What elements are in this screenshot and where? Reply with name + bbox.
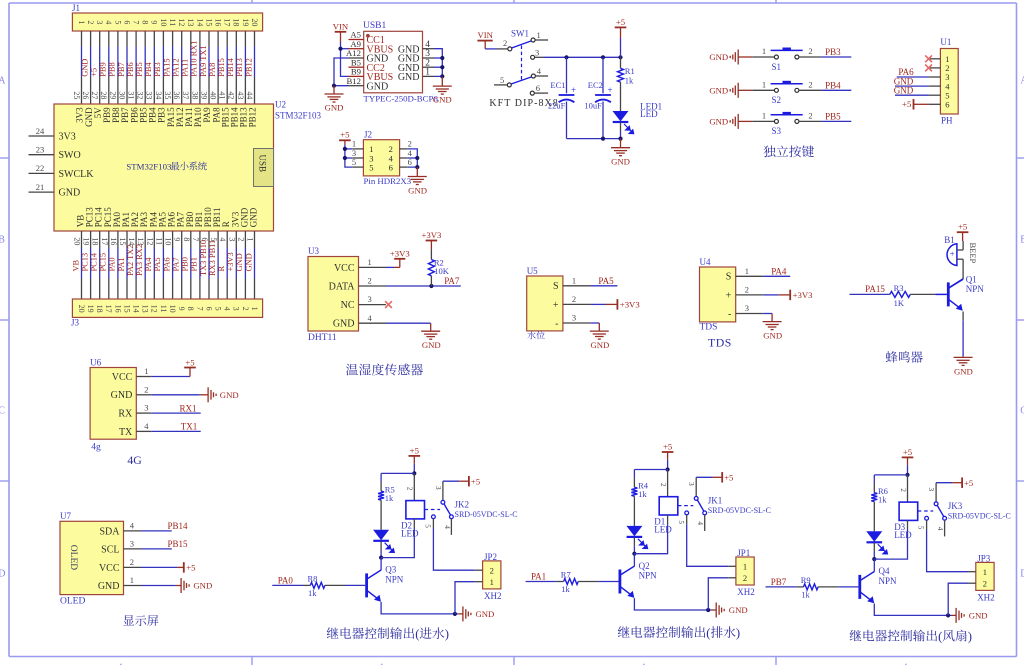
- svg-text:PB14: PB14: [168, 521, 189, 531]
- svg-text:PB12: PB12: [248, 107, 258, 127]
- capacitor EC1 22uF: [566, 57, 568, 93]
- svg-text:PB0: PB0: [181, 257, 190, 271]
- transistor Q3 NPN: [367, 570, 382, 602]
- svg-text:PA2 TX2: PA2 TX2: [126, 245, 135, 276]
- junction: [564, 55, 568, 59]
- svg-text:PA0: PA0: [108, 257, 117, 271]
- svg-text:4: 4: [537, 66, 542, 76]
- svg-text:1: 1: [537, 30, 541, 40]
- U7 vertical OLED text: [68, 545, 78, 570]
- svg-text:R9: R9: [801, 575, 811, 585]
- svg-text:): ): [445, 627, 449, 641]
- wire bottom rail: [567, 138, 621, 140]
- wire +5 node to R5: [381, 472, 414, 474]
- wire S3 pin2 to PB5: [799, 120, 821, 122]
- wire U7 VCC to +5: [141, 566, 177, 568]
- wire U5 + to +3V3: [590, 303, 605, 305]
- net label GND: [244, 253, 253, 271]
- svg-text:GND: GND: [98, 581, 120, 592]
- svg-text:2: 2: [241, 307, 250, 311]
- svg-text:GND: GND: [729, 605, 748, 615]
- wire +5 to J2 pins 1 3 5: [344, 140, 346, 145]
- power +5: [957, 222, 969, 233]
- net label PB3: [153, 62, 162, 76]
- wire JK3 coil to Q collector node: [907, 520, 909, 529]
- U7 pin 4 SDA: [99, 521, 141, 538]
- svg-text:): ): [736, 626, 740, 640]
- svg-text:10: 10: [168, 305, 177, 313]
- svg-text:PB6: PB6: [126, 62, 135, 76]
- svg-text:+5: +5: [724, 473, 733, 483]
- net label PB13: [235, 58, 244, 77]
- net label PB6: [126, 62, 135, 76]
- U6 pin stubs and numbers: [136, 366, 151, 431]
- svg-text:U3: U3: [308, 246, 319, 256]
- resistor R2 10K: [430, 241, 432, 250]
- relay JK3 switch: [918, 483, 947, 537]
- net label GND: [80, 59, 89, 77]
- wire emitter to ground: [962, 312, 964, 321]
- name 水位: [527, 331, 545, 339]
- svg-text:3: 3: [687, 482, 695, 486]
- svg-text:B12: B12: [347, 76, 361, 86]
- svg-text:GND: GND: [408, 185, 427, 195]
- junction: [618, 55, 622, 59]
- svg-text:2: 2: [406, 487, 414, 491]
- wire U6 GND to ground: [151, 394, 199, 396]
- svg-text:3: 3: [368, 294, 372, 304]
- wire U7 SCL to PB15: [141, 548, 172, 550]
- svg-text:3V3: 3V3: [59, 131, 76, 142]
- svg-text:PH: PH: [941, 115, 953, 125]
- svg-text:6: 6: [122, 20, 131, 24]
- svg-text:+5: +5: [410, 445, 419, 455]
- net label PB15: [168, 539, 189, 549]
- svg-text:14: 14: [195, 18, 204, 26]
- svg-text:(: (: [938, 629, 942, 643]
- svg-text:10: 10: [164, 237, 173, 245]
- sensor U3 DHT11: [308, 257, 359, 332]
- svg-text:11: 11: [168, 19, 177, 27]
- svg-text:PB9: PB9: [99, 62, 108, 76]
- svg-text:+: +: [726, 290, 732, 301]
- resistor R1 1k: [620, 57, 622, 68]
- svg-text:PA3 RX2: PA3 RX2: [135, 244, 144, 276]
- ground below Q1: [954, 357, 973, 365]
- svg-text:2: 2: [572, 294, 576, 304]
- svg-text:Q1: Q1: [966, 274, 977, 284]
- caption 继电器控制输出(风扇): [850, 629, 972, 643]
- wire JP3 to rail: [968, 582, 976, 584]
- junction: [618, 137, 622, 141]
- svg-text:1: 1: [983, 567, 987, 577]
- svg-text:5: 5: [352, 157, 356, 167]
- power +5: [902, 447, 914, 458]
- net label PB12: [244, 58, 253, 77]
- J2 pin numbers inside: [369, 144, 393, 172]
- U3 pin name GND: [333, 319, 355, 330]
- transistor Q1 NPN: [948, 279, 963, 311]
- svg-text:1k: 1k: [638, 489, 647, 499]
- svg-text:9: 9: [177, 307, 186, 311]
- junction: [453, 612, 457, 616]
- junction: [338, 47, 342, 51]
- name 4g: [91, 442, 101, 452]
- net label +3V3: [226, 252, 235, 271]
- svg-text:VIN: VIN: [477, 30, 493, 40]
- svg-text:20: 20: [73, 237, 82, 245]
- wire PA0 to R8: [272, 584, 303, 586]
- svg-text:PB5: PB5: [825, 112, 841, 122]
- ground at U7: [181, 578, 189, 593]
- net label PA1: [531, 572, 546, 582]
- svg-text:+5: +5: [663, 441, 672, 451]
- svg-text:JK2: JK2: [455, 499, 470, 509]
- svg-text:NPN: NPN: [639, 570, 658, 580]
- switch SW1 KFT DIP-8X8: [511, 29, 529, 39]
- svg-text:4: 4: [218, 237, 227, 241]
- svg-text:3: 3: [927, 488, 935, 492]
- wire USB1 right GND pins: [434, 49, 442, 77]
- svg-text:PA7: PA7: [444, 276, 460, 286]
- svg-text:+5: +5: [185, 357, 194, 367]
- svg-text:GND: GND: [333, 319, 355, 330]
- wire VIN to VBUS pins: [340, 42, 342, 49]
- wire U5 - to ground: [590, 322, 599, 324]
- svg-text:(: (: [415, 627, 419, 641]
- svg-text:11: 11: [154, 237, 163, 245]
- junction: [415, 156, 419, 160]
- wire PB7 to R9: [766, 586, 797, 588]
- junction: [666, 467, 670, 471]
- SW1 pin numbers: [500, 30, 542, 93]
- svg-text:D: D: [0, 569, 5, 580]
- svg-text:1: 1: [250, 307, 259, 311]
- wire PA1 to R7: [526, 581, 557, 583]
- power +5 at U1 pin6: [902, 99, 911, 109]
- relay JK2 switch: [425, 481, 454, 535]
- svg-text:1k: 1k: [561, 584, 570, 594]
- ground below U3: [421, 331, 440, 339]
- net label PA8: [208, 63, 217, 77]
- svg-text:Q2: Q2: [639, 561, 650, 571]
- U4 pin stubs and numbers: [736, 266, 764, 314]
- svg-text:PA8: PA8: [208, 63, 217, 77]
- svg-text:U1: U1: [940, 37, 951, 47]
- push button S2: [771, 81, 803, 93]
- wire R7 to base: [578, 581, 598, 583]
- power +5: [615, 17, 627, 28]
- svg-text:SRD-05VDC-SL-C: SRD-05VDC-SL-C: [948, 511, 1011, 520]
- svg-text:S2: S2: [772, 95, 782, 105]
- svg-text:20: 20: [77, 305, 86, 313]
- junction: [946, 613, 950, 617]
- USB1 pin B9 VBUS: [349, 67, 394, 83]
- svg-text:J2: J2: [364, 129, 372, 139]
- junction: [379, 556, 383, 560]
- svg-text:42: 42: [227, 91, 236, 99]
- U2 bottom pin numbers 20-1: [73, 237, 255, 245]
- svg-text:2: 2: [503, 38, 507, 48]
- svg-text:TDS: TDS: [700, 322, 718, 332]
- resistor R8 1k: [310, 582, 325, 588]
- svg-text:OLED: OLED: [68, 545, 78, 570]
- push button S3: [771, 112, 803, 124]
- svg-text:4: 4: [144, 421, 149, 431]
- svg-text:8: 8: [186, 307, 195, 311]
- label BEEP: [968, 243, 978, 264]
- svg-text:3: 3: [144, 403, 148, 413]
- U3 pin stubs and numbers: [359, 257, 387, 323]
- svg-text:18: 18: [95, 305, 104, 313]
- svg-text:20: 20: [250, 18, 259, 26]
- svg-text:GND: GND: [235, 253, 244, 271]
- net label PA15: [162, 58, 171, 76]
- svg-text:7: 7: [132, 20, 141, 24]
- svg-text:LED: LED: [654, 525, 672, 535]
- svg-text:5: 5: [113, 20, 122, 24]
- svg-text:PA1: PA1: [117, 257, 126, 271]
- svg-text:34: 34: [154, 91, 163, 99]
- wire S2 pin2 to PB4: [799, 89, 821, 91]
- svg-text:11: 11: [159, 305, 168, 313]
- svg-text:2: 2: [659, 483, 667, 487]
- USB1 pin B5 CC2: [349, 57, 385, 73]
- ground below U4: [763, 322, 782, 330]
- svg-text:D: D: [1020, 569, 1024, 580]
- wire SW1 pin3 to +5 node: [544, 56, 621, 58]
- svg-text:21: 21: [36, 182, 45, 192]
- svg-text:16: 16: [214, 18, 223, 26]
- svg-text:1: 1: [572, 275, 576, 285]
- svg-text:12: 12: [177, 18, 186, 26]
- net label PB14: [168, 521, 189, 531]
- svg-text:15: 15: [122, 305, 131, 313]
- svg-text:PB13: PB13: [235, 58, 244, 77]
- svg-text:R8: R8: [308, 574, 318, 584]
- svg-text:GND: GND: [894, 85, 914, 95]
- svg-text:16: 16: [109, 237, 118, 245]
- svg-text:19: 19: [241, 18, 250, 26]
- junction: [415, 165, 419, 169]
- svg-text:+5: +5: [186, 562, 195, 572]
- svg-text:26: 26: [81, 91, 90, 99]
- svg-text:35: 35: [163, 91, 172, 99]
- svg-text:+5: +5: [471, 476, 480, 486]
- svg-text:PB12: PB12: [244, 58, 253, 77]
- svg-text:38: 38: [190, 91, 199, 99]
- net label PA1: [117, 257, 126, 271]
- svg-text:18: 18: [91, 237, 100, 245]
- wire R3 to base: [910, 293, 935, 295]
- caption 温湿度传感器: [346, 364, 423, 376]
- svg-text:GND: GND: [763, 330, 782, 340]
- svg-text:1k: 1k: [878, 494, 887, 504]
- net label PA6: [898, 67, 914, 77]
- svg-text:1: 1: [77, 20, 86, 24]
- net label PB5: [135, 62, 144, 76]
- connector J3: [72, 299, 262, 317]
- net label RX3 PB11: [208, 240, 217, 276]
- svg-text:GND: GND: [611, 156, 630, 166]
- module U6 4G: [90, 368, 136, 440]
- svg-text:3: 3: [95, 20, 104, 24]
- svg-text:R7: R7: [561, 570, 571, 580]
- svg-text:12: 12: [145, 237, 154, 245]
- wire JP1 to rail: [728, 577, 736, 579]
- svg-text:TX3 PB10: TX3 PB10: [199, 240, 208, 276]
- svg-text:1: 1: [130, 575, 134, 585]
- svg-text:JP1: JP1: [737, 548, 750, 558]
- net label PB7: [771, 577, 787, 587]
- svg-text:14: 14: [132, 305, 141, 313]
- power VIN at USB1: [333, 22, 349, 43]
- svg-text:+: +: [608, 85, 613, 95]
- svg-text:GND: GND: [709, 117, 728, 127]
- svg-text:3: 3: [434, 486, 442, 490]
- svg-text:18: 18: [232, 18, 241, 26]
- svg-text:PA5: PA5: [153, 257, 162, 271]
- net label PA12: [172, 58, 181, 76]
- svg-text:TX: TX: [119, 427, 133, 438]
- net label PA9 TX1: [199, 45, 208, 76]
- net label GND: [235, 253, 244, 271]
- net label PA10 RX1: [190, 41, 199, 77]
- J3 pin numbers 20-1: [77, 305, 259, 313]
- push button S1: [771, 48, 803, 60]
- U2 left pins 24-21: [29, 126, 95, 199]
- wire buzzer to Q1 collector: [962, 259, 964, 279]
- ground at rail: [458, 613, 462, 615]
- svg-text:GND: GND: [969, 611, 988, 621]
- svg-text:PB7: PB7: [771, 577, 787, 587]
- resistor R5 1k: [380, 482, 382, 491]
- wire +5 node to R6: [874, 474, 907, 476]
- svg-text:1: 1: [743, 562, 747, 572]
- svg-text:5: 5: [214, 307, 223, 311]
- net label GND: [894, 76, 914, 86]
- net label TX1: [181, 422, 198, 432]
- svg-text:5: 5: [677, 520, 685, 524]
- svg-text:B1: B1: [944, 235, 955, 245]
- net label PA5: [598, 276, 614, 286]
- power +5 at JK3 pin3: [936, 482, 952, 484]
- svg-text:S: S: [553, 281, 559, 292]
- svg-text:VIN: VIN: [333, 22, 349, 32]
- resistor R9 1k: [804, 584, 819, 590]
- power +5: [409, 445, 421, 456]
- svg-text:44: 44: [245, 91, 254, 99]
- net label PA7: [444, 276, 460, 286]
- svg-text:PB8: PB8: [108, 62, 117, 76]
- U2 title STM32F103最小系统: [126, 162, 172, 172]
- net label +5: [90, 68, 99, 77]
- net label PC15: [99, 253, 108, 272]
- svg-text:4: 4: [696, 521, 704, 525]
- wire U3 GND to ground: [386, 322, 431, 324]
- svg-text:JK1: JK1: [708, 495, 723, 505]
- net label R: [217, 266, 226, 272]
- wire emitter to rail: [381, 602, 458, 614]
- svg-text:GND: GND: [709, 86, 728, 96]
- svg-text:27: 27: [90, 91, 99, 99]
- wire U5 S to PA5: [590, 285, 617, 287]
- svg-text:10: 10: [159, 18, 168, 26]
- svg-text:S1: S1: [772, 62, 782, 72]
- svg-text:SDA: SDA: [99, 526, 120, 537]
- svg-text:31: 31: [127, 91, 136, 99]
- svg-text:PA5: PA5: [598, 276, 614, 286]
- wire JK1 pin5 to JP1: [686, 515, 688, 524]
- svg-text:6: 6: [945, 100, 949, 110]
- svg-text:SRD-05VDC-SL-C: SRD-05VDC-SL-C: [708, 506, 771, 515]
- ground at USB1 left: [333, 86, 335, 94]
- U3 pin name VCC: [334, 263, 355, 274]
- svg-text:GND: GND: [590, 340, 609, 350]
- svg-text:LED: LED: [894, 530, 912, 540]
- svg-text:33: 33: [145, 91, 154, 99]
- svg-text:SWO: SWO: [59, 150, 81, 161]
- svg-text:GND: GND: [244, 253, 253, 271]
- svg-text:1: 1: [425, 68, 430, 78]
- wire JK3 pin5 to JP3: [926, 520, 928, 529]
- wire S1 pin2 to PB3: [799, 56, 821, 58]
- svg-text:PB7: PB7: [117, 62, 126, 76]
- wire U3 VCC to +3V3: [386, 266, 394, 268]
- svg-text:STM32F103: STM32F103: [126, 162, 172, 172]
- svg-text:+3V3: +3V3: [421, 230, 441, 240]
- svg-text:1k: 1k: [625, 75, 634, 85]
- svg-text:XH2: XH2: [977, 592, 995, 602]
- U5 pin name +: [553, 300, 559, 311]
- wire GND to S3 pin1: [738, 120, 752, 122]
- svg-text:5: 5: [424, 524, 432, 528]
- svg-text:4G: 4G: [127, 453, 142, 467]
- wire U4 + to +3V3: [763, 294, 778, 296]
- svg-text:6: 6: [204, 307, 213, 311]
- svg-text:U5: U5: [527, 266, 538, 276]
- wire +5 to buzzer: [962, 232, 964, 241]
- svg-text:13: 13: [186, 18, 195, 26]
- U6 pin name VCC: [112, 372, 133, 383]
- svg-text:22uF: 22uF: [548, 101, 566, 111]
- svg-text:Q3: Q3: [385, 565, 396, 575]
- svg-text:GND: GND: [367, 81, 389, 92]
- svg-text:GND: GND: [476, 609, 495, 619]
- wire U1 pin4 GND: [895, 85, 929, 87]
- svg-text:LED: LED: [401, 528, 419, 538]
- ic U2 STM32F103 minimal system: [54, 104, 274, 231]
- svg-text:LED: LED: [640, 109, 658, 119]
- svg-text:NPN: NPN: [385, 574, 404, 584]
- svg-text:GND: GND: [193, 581, 212, 591]
- svg-text:C: C: [1020, 406, 1024, 417]
- svg-text:RX1: RX1: [179, 403, 196, 413]
- svg-text:+5: +5: [964, 478, 973, 488]
- sensor U4 TDS: [700, 267, 736, 322]
- led D1: [626, 526, 647, 549]
- svg-text:EC2: EC2: [588, 80, 603, 90]
- svg-text:JK3: JK3: [948, 501, 963, 511]
- svg-text:S3: S3: [772, 126, 782, 136]
- junction: [440, 56, 444, 60]
- U2 bottom pin names: [76, 207, 259, 228]
- net label PB4: [825, 81, 841, 91]
- wire PA15 to R3: [850, 293, 890, 295]
- junction: [343, 156, 347, 160]
- svg-text:SWCLK: SWCLK: [59, 169, 95, 180]
- svg-text:R: R: [217, 266, 226, 272]
